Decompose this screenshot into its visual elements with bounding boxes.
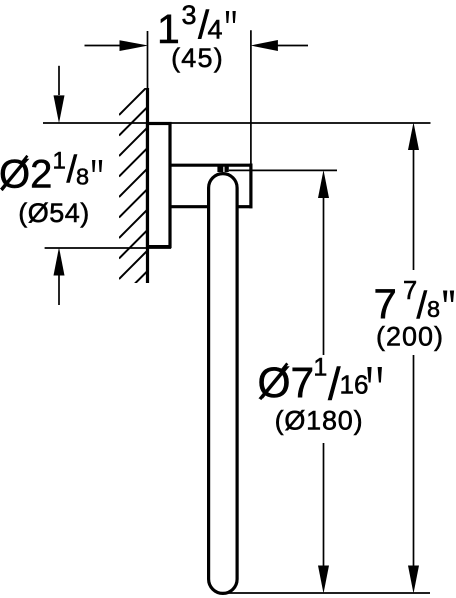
svg-text:1: 1: [313, 354, 327, 382]
svg-text:1: 1: [53, 148, 66, 175]
svg-text:(Ø180): (Ø180): [275, 406, 364, 436]
svg-text:8: 8: [427, 296, 440, 322]
svg-text:4: 4: [208, 15, 223, 45]
svg-text:7: 7: [403, 277, 417, 305]
svg-text:(200): (200): [376, 322, 444, 352]
svg-text:3: 3: [182, 0, 197, 30]
svg-text:(Ø54): (Ø54): [18, 198, 90, 228]
svg-text:8: 8: [76, 164, 89, 190]
svg-text:7: 7: [374, 280, 397, 327]
svg-text:16: 16: [340, 370, 369, 400]
svg-text:(45): (45): [171, 43, 224, 73]
